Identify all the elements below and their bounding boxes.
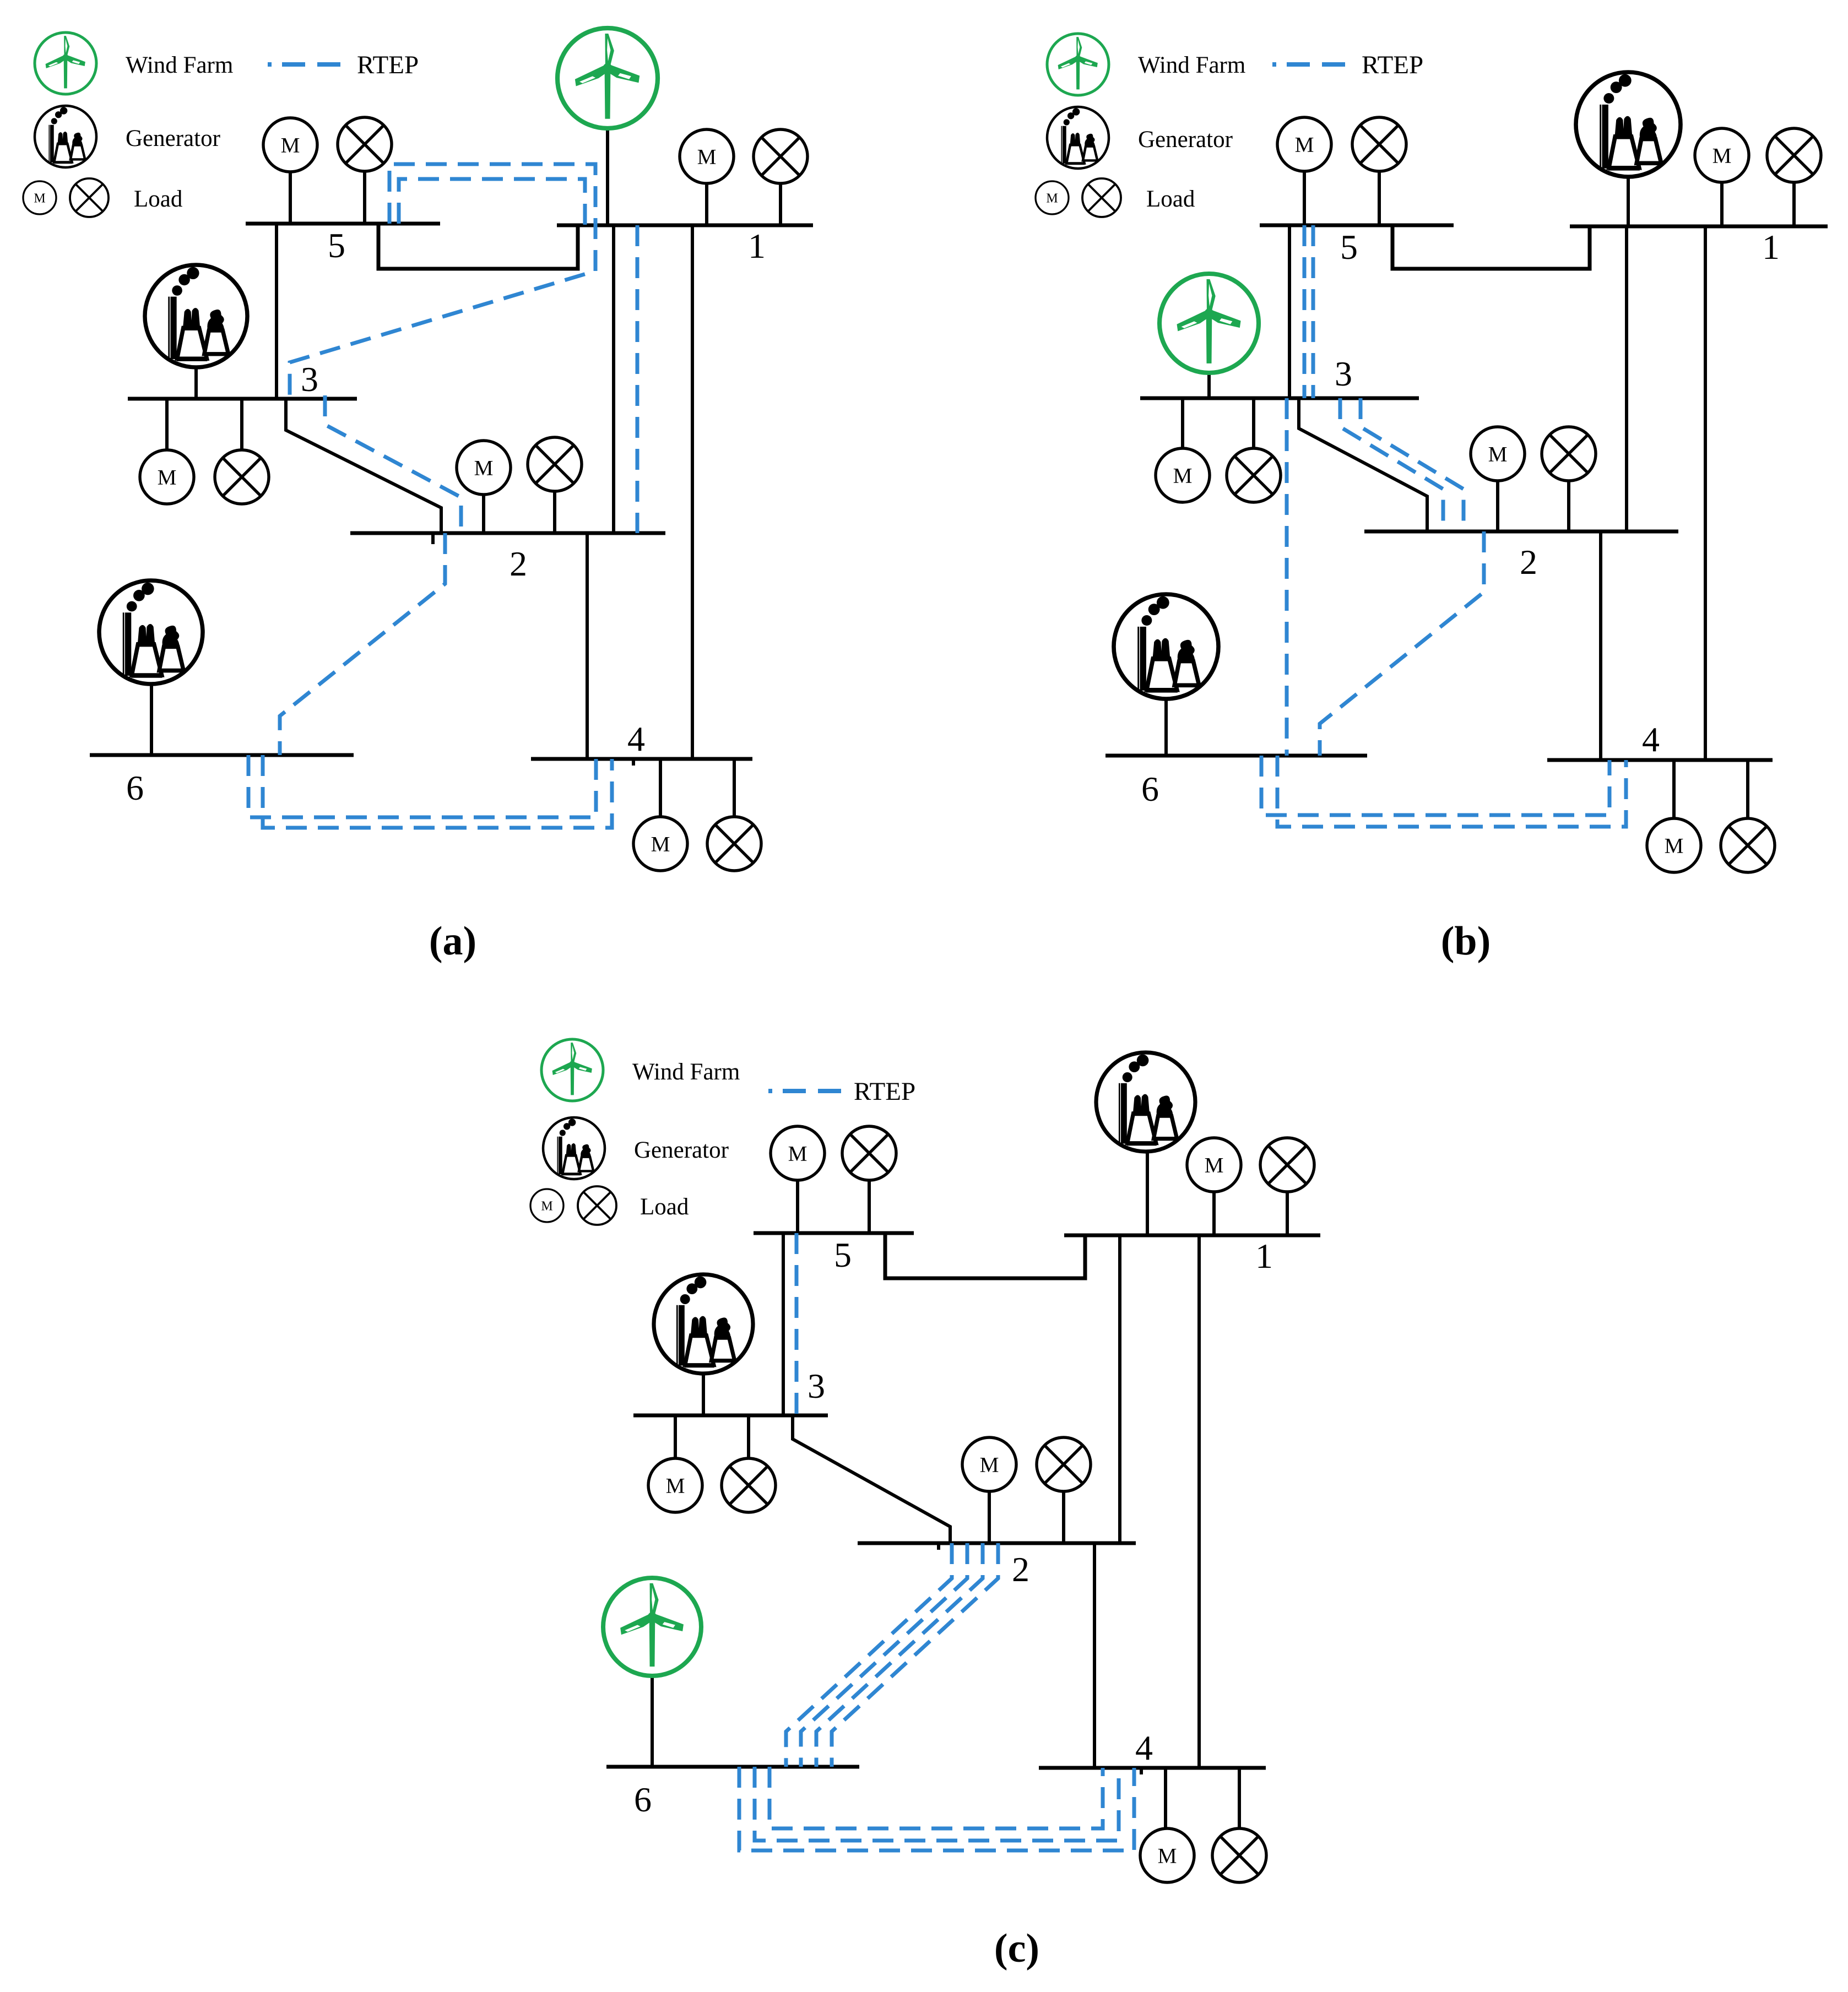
svg-text:6: 6 bbox=[634, 1780, 652, 1819]
legend load M circle (b) bbox=[1036, 181, 1069, 214]
svg-text:Generator: Generator bbox=[634, 1137, 729, 1163]
svg-text:5: 5 bbox=[1340, 227, 1358, 267]
generator stem bus 6 (b) bbox=[1164, 699, 1168, 756]
load lamp circle bus 4 (c) bbox=[1212, 1828, 1266, 1882]
generator stem bus 6 (a) bbox=[150, 684, 153, 755]
line 1-4 (c) bbox=[1197, 1235, 1201, 1768]
svg-text:Load: Load bbox=[1146, 186, 1195, 212]
generator icon bus 1 (b) bbox=[1576, 72, 1681, 177]
load M stem bus 2 (b) bbox=[1496, 481, 1499, 531]
load lamp circle bus 1 (c) bbox=[1260, 1138, 1314, 1192]
load M stem bus 5 (c) bbox=[796, 1180, 799, 1233]
svg-text:6: 6 bbox=[1141, 769, 1159, 808]
svg-text:Generator: Generator bbox=[126, 126, 220, 151]
line 1-5 (c) bbox=[885, 1233, 1085, 1278]
RTEP line 4-6 second circuit (c) bbox=[755, 1767, 1119, 1841]
load lamp circle bus 3 (c) bbox=[722, 1458, 776, 1512]
wind farm stem bus 1 (a) bbox=[606, 128, 609, 225]
RTEP line 2-6 second circuit (c) bbox=[801, 1543, 967, 1767]
bus 3 (b) bbox=[1140, 397, 1419, 400]
bus 2 (c) bbox=[858, 1542, 1136, 1545]
svg-text:5: 5 bbox=[834, 1235, 852, 1274]
line 2-3 (c) bbox=[793, 1415, 950, 1543]
load lamp stem bus 5 (a) bbox=[363, 171, 366, 224]
load M stem bus 4 (b) bbox=[1672, 760, 1676, 818]
load M stem bus 2 (a) bbox=[482, 495, 485, 533]
legend generator icon (a) bbox=[35, 106, 96, 167]
load lamp circle bus 1 (b) bbox=[1767, 128, 1821, 182]
svg-text:4: 4 bbox=[627, 719, 645, 758]
RTEP line 5-1 (a) bbox=[399, 179, 585, 225]
load lamp stem bus 2 (a) bbox=[553, 491, 556, 533]
bus 5 (b) bbox=[1260, 224, 1454, 227]
load M circle bus 1 (a) bbox=[680, 129, 734, 183]
load lamp stem bus 4 (b) bbox=[1746, 760, 1749, 818]
legend RTEP dashed sample (a) bbox=[268, 62, 353, 67]
load lamp stem bus 1 (c) bbox=[1286, 1192, 1289, 1235]
svg-text:RTEP: RTEP bbox=[357, 51, 419, 79]
load M stem bus 4 (c) bbox=[1164, 1768, 1167, 1828]
generator stem bus 1 (b) bbox=[1627, 177, 1630, 226]
RTEP line 2-6 third circuit (c) bbox=[816, 1543, 983, 1767]
svg-text:(c): (c) bbox=[994, 1926, 1039, 1971]
RTEP line 3-5 second circuit (b) bbox=[1312, 225, 1315, 398]
RTEP line 3-5 first circuit (b) bbox=[1303, 225, 1307, 398]
bus 6 (b) bbox=[1105, 754, 1367, 758]
load M circle bus 3 (c) bbox=[648, 1458, 702, 1512]
svg-text:3: 3 bbox=[301, 360, 318, 399]
bus 2 stub tick (c) bbox=[937, 1543, 940, 1550]
wind farm stem bus 6 (c) bbox=[651, 1676, 654, 1767]
bus 3 (c) bbox=[633, 1414, 828, 1418]
load lamp circle bus 2 (c) bbox=[1037, 1437, 1091, 1491]
line 1-5 (b) bbox=[1392, 225, 1590, 269]
load M stem bus 3 (a) bbox=[165, 399, 169, 452]
RTEP line 3-5 (a) bbox=[290, 164, 595, 399]
load M stem bus 1 (c) bbox=[1212, 1192, 1216, 1235]
wind farm icon bus 1 (a) bbox=[557, 28, 658, 128]
svg-text:Wind Farm: Wind Farm bbox=[126, 52, 233, 78]
line 1-5 (a) bbox=[378, 225, 578, 269]
legend RTEP dashed sample (c) bbox=[768, 1089, 849, 1093]
legend load M circle (c) bbox=[530, 1189, 563, 1222]
legend generator icon (c) bbox=[543, 1117, 605, 1179]
load M stem bus 3 (b) bbox=[1181, 398, 1184, 448]
load lamp circle bus 1 (a) bbox=[754, 129, 808, 183]
load M circle bus 2 (c) bbox=[962, 1437, 1016, 1491]
bus 6 (a) bbox=[90, 753, 354, 757]
svg-text:1: 1 bbox=[748, 226, 766, 265]
svg-text:Generator: Generator bbox=[1138, 127, 1233, 153]
svg-text:Wind Farm: Wind Farm bbox=[632, 1059, 740, 1085]
svg-text:RTEP: RTEP bbox=[854, 1077, 915, 1106]
load lamp circle bus 3 (a) bbox=[215, 450, 269, 504]
load M circle bus 2 (a) bbox=[457, 441, 511, 495]
load lamp stem bus 2 (c) bbox=[1062, 1491, 1065, 1543]
svg-text:Wind Farm: Wind Farm bbox=[1138, 52, 1245, 78]
load M circle bus 4 (c) bbox=[1140, 1828, 1194, 1882]
RTEP line 1-2 (a) bbox=[636, 225, 640, 533]
load lamp stem bus 2 (b) bbox=[1567, 479, 1570, 531]
line 3-5 (a) bbox=[275, 224, 278, 399]
load lamp circle bus 2 (a) bbox=[528, 437, 582, 491]
bus 1 (c) bbox=[1064, 1234, 1320, 1237]
line 3-5 (c) bbox=[782, 1233, 785, 1415]
line 2-3 (b) bbox=[1299, 398, 1427, 531]
RTEP line 2-6 first circuit (c) bbox=[786, 1543, 952, 1767]
load M circle bus 5 (c) bbox=[771, 1126, 825, 1180]
svg-text:Load: Load bbox=[640, 1194, 689, 1220]
load lamp circle bus 4 (b) bbox=[1721, 818, 1775, 872]
load lamp stem bus 3 (b) bbox=[1252, 398, 1255, 448]
load M circle bus 3 (b) bbox=[1156, 448, 1210, 502]
load M circle bus 1 (b) bbox=[1695, 128, 1749, 182]
svg-text:4: 4 bbox=[1642, 720, 1660, 759]
legend generator icon (b) bbox=[1047, 107, 1109, 169]
legend wind farm icon (c) bbox=[541, 1039, 603, 1101]
RTEP line 4-6 third circuit (c) bbox=[739, 1767, 1134, 1850]
generator icon bus 3 (a) bbox=[145, 265, 247, 367]
load lamp stem bus 5 (c) bbox=[868, 1180, 871, 1233]
RTEP line 3-5 (c) bbox=[795, 1233, 799, 1420]
RTEP line 2-3 first circuit (b) bbox=[1340, 398, 1443, 531]
load lamp stem bus 1 (b) bbox=[1792, 182, 1796, 226]
bus 4 stub tick (a) bbox=[632, 759, 635, 766]
generator icon bus 1 (c) bbox=[1096, 1052, 1195, 1152]
svg-text:5: 5 bbox=[328, 226, 345, 265]
load M circle bus 5 (a) bbox=[263, 118, 317, 172]
generator icon bus 3 (c) bbox=[654, 1274, 753, 1374]
generator stem bus 1 (c) bbox=[1146, 1152, 1149, 1235]
load M stem bus 4 (a) bbox=[659, 759, 662, 817]
svg-text:6: 6 bbox=[126, 768, 144, 807]
line 1-2 (a) bbox=[612, 225, 615, 533]
generator stem bus 3 (c) bbox=[702, 1373, 705, 1415]
load lamp circle bus 5 (c) bbox=[842, 1126, 896, 1180]
line 3-5 (b) bbox=[1288, 225, 1291, 398]
load lamp stem bus 5 (b) bbox=[1378, 171, 1381, 225]
load M stem bus 5 (b) bbox=[1303, 171, 1306, 225]
svg-text:(b): (b) bbox=[1441, 919, 1491, 964]
load M circle bus 3 (a) bbox=[140, 450, 194, 504]
load lamp circle bus 4 (a) bbox=[707, 817, 761, 871]
line 1-2 (b) bbox=[1625, 226, 1628, 531]
svg-text:(a): (a) bbox=[429, 919, 476, 964]
bus 2 stub tick (a) bbox=[431, 533, 435, 544]
RTEP line 4-6 first circuit (c) bbox=[769, 1767, 1103, 1828]
load lamp stem bus 3 (a) bbox=[240, 399, 243, 450]
line 2-4 (a) bbox=[586, 533, 589, 759]
legend load lamp circle (c) bbox=[578, 1186, 616, 1225]
load M stem bus 5 (a) bbox=[289, 172, 292, 224]
generator icon bus 6 (a) bbox=[99, 580, 203, 684]
load lamp stem bus 1 (a) bbox=[779, 183, 782, 225]
generator icon bus 6 (b) bbox=[1114, 594, 1218, 699]
RTEP line 2-3 (a) bbox=[325, 395, 461, 533]
bus 6 (c) bbox=[606, 1765, 859, 1769]
load lamp circle bus 2 (b) bbox=[1542, 427, 1596, 481]
load M stem bus 1 (b) bbox=[1720, 182, 1724, 226]
svg-text:RTEP: RTEP bbox=[1362, 51, 1423, 79]
line 2-4 (c) bbox=[1093, 1543, 1096, 1768]
load lamp circle bus 5 (a) bbox=[338, 117, 392, 171]
line 1-4 (b) bbox=[1704, 226, 1707, 760]
legend load lamp circle (b) bbox=[1082, 178, 1121, 217]
legend wind farm icon (b) bbox=[1047, 34, 1109, 95]
load M circle bus 1 (c) bbox=[1187, 1138, 1241, 1192]
bus 4 (a) bbox=[531, 757, 752, 761]
RTEP line 2-3 second circuit (b) bbox=[1361, 398, 1464, 531]
bus 3 (a) bbox=[128, 397, 357, 401]
bus 2 (b) bbox=[1364, 530, 1678, 534]
svg-text:2: 2 bbox=[510, 544, 527, 583]
bus 5 (a) bbox=[246, 222, 440, 226]
load lamp stem bus 4 (c) bbox=[1238, 1768, 1241, 1828]
load M stem bus 2 (c) bbox=[988, 1491, 991, 1543]
svg-text:3: 3 bbox=[1335, 354, 1352, 393]
bus 5 (c) bbox=[754, 1231, 914, 1235]
bus 4 (c) bbox=[1039, 1766, 1266, 1770]
svg-text:4: 4 bbox=[1135, 1728, 1153, 1767]
svg-text:2: 2 bbox=[1012, 1550, 1029, 1589]
wind farm stem bus 3 (b) bbox=[1207, 373, 1211, 398]
svg-text:1: 1 bbox=[1255, 1236, 1273, 1275]
RTEP line 2-6 (a) bbox=[280, 533, 445, 755]
load M circle bus 2 (b) bbox=[1471, 427, 1525, 481]
RTEP line 4-6 first circuit (b) bbox=[1261, 756, 1609, 815]
load M stem bus 1 (a) bbox=[705, 183, 708, 225]
load M circle bus 4 (b) bbox=[1647, 818, 1701, 872]
load lamp circle bus 3 (b) bbox=[1227, 448, 1281, 502]
RTEP line 4-6 second circuit (b) bbox=[1277, 756, 1626, 827]
RTEP line 4-6 first circuit (a) bbox=[248, 755, 596, 817]
wind farm icon bus 3 (b) bbox=[1159, 274, 1259, 373]
line 1-2 (c) bbox=[1118, 1235, 1121, 1543]
load lamp circle bus 5 (b) bbox=[1352, 117, 1406, 171]
bus 4 (b) bbox=[1547, 758, 1773, 762]
legend load lamp circle (a) bbox=[70, 178, 109, 217]
load lamp stem bus 3 (c) bbox=[747, 1415, 750, 1458]
svg-text:Load: Load bbox=[134, 186, 182, 212]
wind farm icon bus 6 (c) bbox=[603, 1578, 701, 1676]
RTEP line 2-6 (b) bbox=[1320, 531, 1484, 756]
svg-text:1: 1 bbox=[1762, 227, 1780, 267]
bus 2 (a) bbox=[350, 531, 665, 535]
load M circle bus 4 (a) bbox=[633, 817, 687, 871]
legend wind farm icon (a) bbox=[35, 32, 96, 94]
load M stem bus 3 (c) bbox=[674, 1415, 677, 1458]
load M circle bus 5 (b) bbox=[1277, 117, 1331, 171]
RTEP line 2-6 fourth circuit (c) bbox=[832, 1543, 998, 1767]
svg-text:3: 3 bbox=[808, 1366, 825, 1405]
bus 1 (a) bbox=[557, 224, 813, 227]
generator stem bus 3 (a) bbox=[194, 367, 198, 399]
svg-text:2: 2 bbox=[1520, 542, 1537, 582]
bus 4 stub tick (c) bbox=[1140, 1768, 1143, 1774]
load lamp stem bus 4 (a) bbox=[733, 759, 736, 817]
RTEP line 3-6 (b) bbox=[1285, 398, 1289, 756]
legend load M circle (a) bbox=[23, 181, 56, 214]
line 2-3 (a) bbox=[286, 399, 441, 533]
RTEP line 4-6 second circuit (a) bbox=[263, 755, 612, 828]
line 2-4 (b) bbox=[1599, 531, 1602, 760]
legend RTEP dashed sample (b) bbox=[1272, 62, 1357, 67]
bus 1 (b) bbox=[1570, 225, 1828, 229]
line 1-4 (a) bbox=[691, 225, 694, 759]
